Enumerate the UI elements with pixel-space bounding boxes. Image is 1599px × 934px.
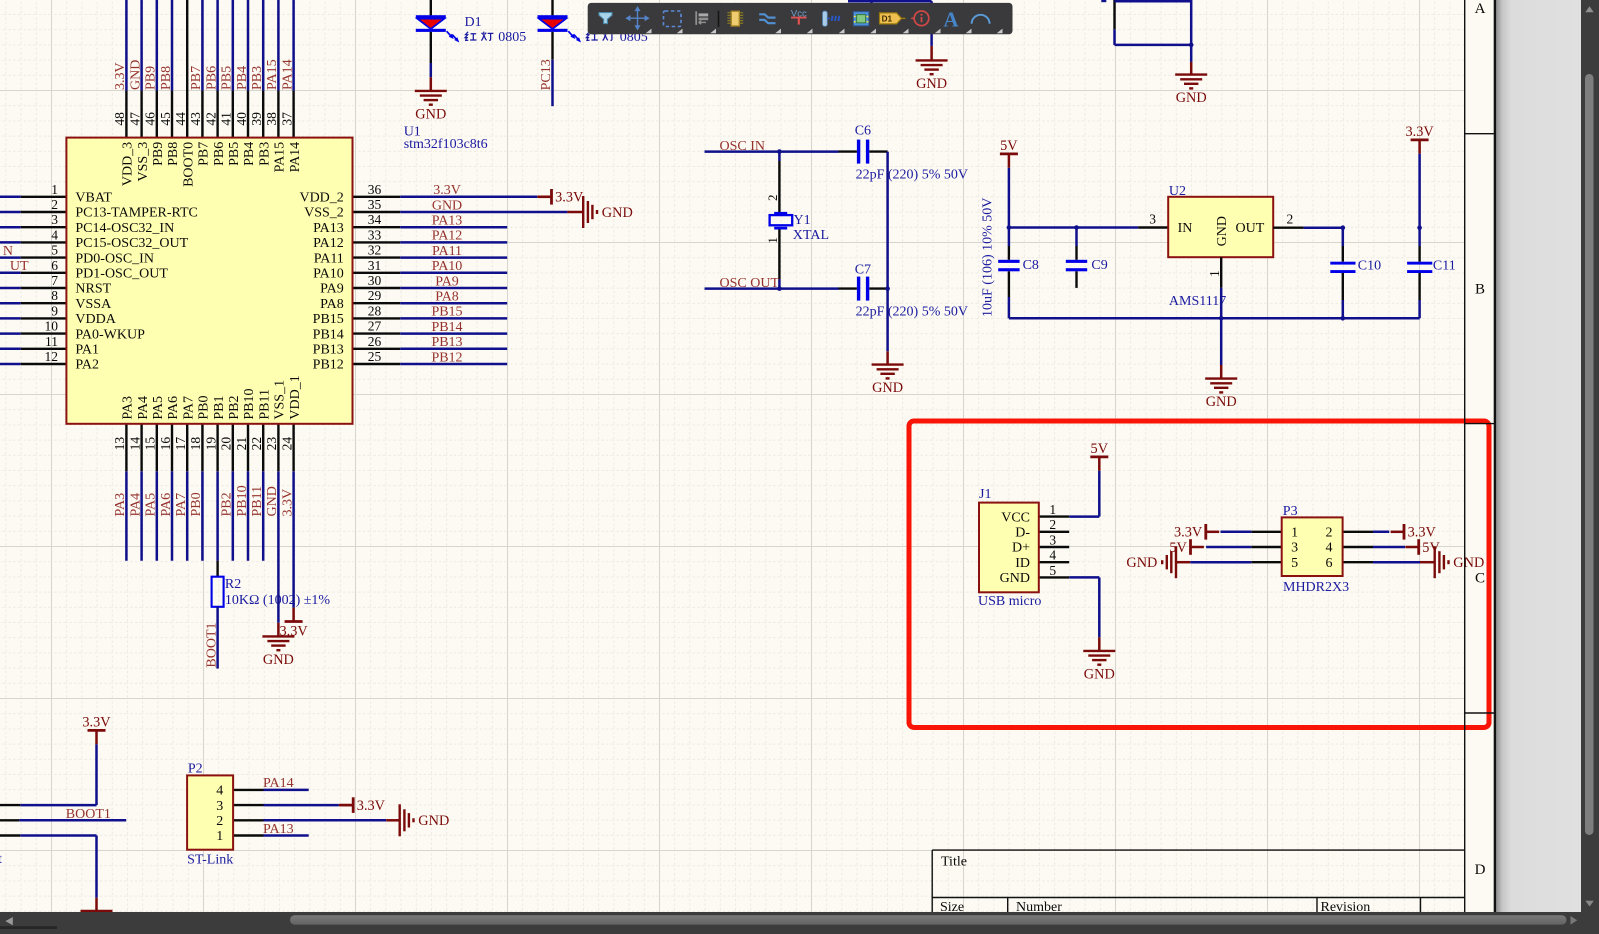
svg-text:PB7: PB7 <box>189 66 204 90</box>
svg-text:C11: C11 <box>1433 259 1456 274</box>
svg-text:VSS_2: VSS_2 <box>304 206 344 221</box>
svg-text:VDD_3: VDD_3 <box>121 142 136 186</box>
svg-text:UT: UT <box>10 259 29 274</box>
svg-text:PC14-OSC32_IN: PC14-OSC32_IN <box>75 221 174 236</box>
svg-text:2: 2 <box>1326 526 1333 541</box>
svg-text:VDD_2: VDD_2 <box>299 191 343 206</box>
svg-text:22: 22 <box>249 437 264 451</box>
svg-text:6: 6 <box>1326 556 1333 571</box>
svg-text:PA4: PA4 <box>128 493 143 517</box>
svg-text:12: 12 <box>45 349 59 364</box>
svg-text:17: 17 <box>173 437 188 451</box>
svg-text:33: 33 <box>368 227 382 242</box>
svg-text:PB5: PB5 <box>227 142 242 166</box>
svg-text:VSS_3: VSS_3 <box>136 142 151 182</box>
svg-text:PB2: PB2 <box>227 395 242 419</box>
svg-text:U2: U2 <box>1169 184 1186 199</box>
svg-text:PA3: PA3 <box>121 396 136 420</box>
svg-text:PB8: PB8 <box>159 66 174 90</box>
svg-text:R2: R2 <box>225 577 241 592</box>
svg-text:PC13: PC13 <box>539 59 554 90</box>
svg-text:PD1-OSC_OUT: PD1-OSC_OUT <box>75 267 168 282</box>
svg-text:10: 10 <box>45 319 59 334</box>
svg-text:GND: GND <box>1206 394 1237 410</box>
svg-text:PB0: PB0 <box>189 492 204 516</box>
svg-text:N: N <box>3 244 13 259</box>
svg-text:23: 23 <box>264 437 279 451</box>
svg-text:5V: 5V <box>1000 138 1018 154</box>
svg-text:ST-Link: ST-Link <box>187 852 233 867</box>
svg-text:3.3V: 3.3V <box>113 62 128 90</box>
svg-text:PB3: PB3 <box>257 142 272 166</box>
svg-text:37: 37 <box>279 112 294 126</box>
svg-text:VCC: VCC <box>1001 510 1030 525</box>
svg-text:5: 5 <box>51 243 58 258</box>
svg-text:0805: 0805 <box>498 30 526 45</box>
svg-text:PA1: PA1 <box>75 343 99 358</box>
svg-text:20: 20 <box>219 437 234 451</box>
svg-text:PA7: PA7 <box>174 493 189 517</box>
svg-text:D1: D1 <box>882 14 893 23</box>
svg-text:4: 4 <box>216 784 223 799</box>
svg-text:1: 1 <box>1291 526 1298 541</box>
svg-text:6: 6 <box>51 258 58 273</box>
svg-text:1: 1 <box>216 829 223 844</box>
svg-text:GND: GND <box>1176 90 1207 106</box>
svg-text:PA9: PA9 <box>320 282 344 297</box>
svg-text:PB13: PB13 <box>313 343 344 358</box>
svg-text:PB12: PB12 <box>313 358 344 373</box>
svg-text:PA0-WKUP: PA0-WKUP <box>75 327 145 342</box>
svg-text:PA14: PA14 <box>288 142 303 173</box>
svg-text:PA3: PA3 <box>113 493 128 517</box>
svg-text:3: 3 <box>216 799 223 814</box>
svg-text:OUT: OUT <box>1236 221 1265 236</box>
svg-text:VSS_1: VSS_1 <box>273 380 288 420</box>
svg-text:36: 36 <box>368 182 382 197</box>
svg-text:PA5: PA5 <box>151 396 166 420</box>
svg-text:13: 13 <box>112 437 127 451</box>
svg-text:35: 35 <box>368 197 382 212</box>
svg-text:16: 16 <box>158 437 173 451</box>
svg-text:C6: C6 <box>855 124 871 139</box>
svg-text:2: 2 <box>1049 517 1056 532</box>
svg-text:GND: GND <box>128 60 143 90</box>
svg-text:PA13: PA13 <box>313 221 344 236</box>
svg-text:PA6: PA6 <box>159 493 174 517</box>
svg-text:PB6: PB6 <box>212 142 227 166</box>
svg-text:D: D <box>1475 862 1486 878</box>
svg-text:38: 38 <box>264 112 279 126</box>
svg-text:PB9: PB9 <box>144 66 159 90</box>
svg-text:5: 5 <box>1049 563 1056 578</box>
svg-text:PB11: PB11 <box>250 486 265 517</box>
svg-text:3: 3 <box>1291 541 1298 556</box>
svg-text:30: 30 <box>368 273 382 288</box>
svg-text:GND: GND <box>415 107 446 123</box>
svg-text:45: 45 <box>158 112 173 126</box>
svg-text:1: 1 <box>51 182 58 197</box>
svg-text:3.3V: 3.3V <box>357 798 386 814</box>
svg-text:3: 3 <box>51 212 58 227</box>
svg-text:41: 41 <box>219 112 234 126</box>
svg-text:P3: P3 <box>1283 504 1298 519</box>
svg-text:10uF (106) 10% 50V: 10uF (106) 10% 50V <box>981 198 996 317</box>
svg-text:IN: IN <box>1178 221 1193 236</box>
svg-text:PB6: PB6 <box>204 66 219 90</box>
svg-text:VSSA: VSSA <box>75 297 112 312</box>
svg-text:PB11: PB11 <box>257 389 272 420</box>
svg-text:XTAL: XTAL <box>793 228 829 243</box>
svg-text:PB8: PB8 <box>166 142 181 166</box>
svg-text:BOOT0: BOOT0 <box>181 142 196 187</box>
svg-text:P2: P2 <box>188 761 203 776</box>
svg-text:9: 9 <box>51 303 58 318</box>
svg-text:Title: Title <box>941 854 967 869</box>
svg-text:t: t <box>0 852 2 867</box>
svg-text:7: 7 <box>51 273 58 288</box>
svg-text:3.3V: 3.3V <box>1408 525 1437 541</box>
svg-text:PA7: PA7 <box>181 396 196 420</box>
svg-text:GND: GND <box>1000 571 1030 586</box>
svg-text:40: 40 <box>234 112 249 126</box>
svg-text:NRST: NRST <box>75 282 111 297</box>
svg-text:PA2: PA2 <box>75 358 99 373</box>
svg-text:GND: GND <box>1453 555 1484 571</box>
svg-text:21: 21 <box>234 437 249 451</box>
svg-text:GND: GND <box>1084 667 1115 683</box>
svg-text:3.3V: 3.3V <box>555 190 584 206</box>
svg-text:B: B <box>1475 282 1485 298</box>
svg-text:PB15: PB15 <box>313 312 344 327</box>
svg-text:31: 31 <box>368 258 382 273</box>
svg-text:PB1: PB1 <box>212 395 227 419</box>
svg-text:GND: GND <box>263 652 294 668</box>
svg-text:4: 4 <box>1049 548 1056 563</box>
svg-text:VBAT: VBAT <box>75 191 112 206</box>
svg-text:43: 43 <box>188 112 203 126</box>
svg-text:PA14: PA14 <box>280 59 295 90</box>
svg-text:PB14: PB14 <box>313 327 344 342</box>
svg-text:PA8: PA8 <box>320 297 344 312</box>
svg-text:PB5: PB5 <box>220 66 235 90</box>
svg-text:3.3V: 3.3V <box>1174 525 1203 541</box>
svg-text:14: 14 <box>127 437 142 451</box>
svg-text:BOOT1: BOOT1 <box>204 622 219 667</box>
svg-text:18: 18 <box>188 437 203 451</box>
svg-text:GND: GND <box>1215 216 1230 246</box>
svg-text:D1: D1 <box>465 15 482 30</box>
svg-text:GND: GND <box>1126 555 1157 571</box>
svg-text:2: 2 <box>765 195 780 202</box>
svg-text:3.3V: 3.3V <box>82 714 111 730</box>
svg-text:44: 44 <box>173 112 188 126</box>
svg-text:GND: GND <box>916 76 947 92</box>
svg-text:32: 32 <box>368 243 382 258</box>
svg-text:3.3V: 3.3V <box>279 624 308 640</box>
svg-text:11: 11 <box>45 334 58 349</box>
svg-text:stm32f103c8t6: stm32f103c8t6 <box>404 137 488 152</box>
svg-text:D-: D- <box>1015 526 1030 541</box>
svg-text:39: 39 <box>249 112 264 126</box>
svg-text:PB7: PB7 <box>197 142 212 166</box>
svg-text:MHDR2X3: MHDR2X3 <box>1283 580 1349 595</box>
svg-text:PB9: PB9 <box>151 142 166 166</box>
svg-text:PB10: PB10 <box>242 388 257 419</box>
svg-text:34: 34 <box>368 212 382 227</box>
svg-text:C: C <box>1475 571 1485 587</box>
svg-text:3: 3 <box>1149 211 1156 226</box>
svg-text:PD0-OSC_IN: PD0-OSC_IN <box>75 251 154 266</box>
svg-text:24: 24 <box>279 437 294 451</box>
svg-text:46: 46 <box>143 112 158 126</box>
svg-text:PA11: PA11 <box>314 251 344 266</box>
svg-text:GND: GND <box>418 813 449 829</box>
svg-text:C10: C10 <box>1358 259 1381 274</box>
svg-text:VDDA: VDDA <box>75 312 116 327</box>
svg-text:USB micro: USB micro <box>978 594 1041 609</box>
svg-text:VDD_1: VDD_1 <box>288 375 303 419</box>
svg-text:19: 19 <box>203 437 218 451</box>
svg-text:ID: ID <box>1015 556 1030 571</box>
svg-text:3.3V: 3.3V <box>1405 124 1434 140</box>
svg-text:PA14: PA14 <box>263 776 294 791</box>
svg-text:5: 5 <box>1291 556 1298 571</box>
svg-text:28: 28 <box>368 303 382 318</box>
svg-text:PA6: PA6 <box>166 396 181 420</box>
svg-text:GND: GND <box>602 205 633 221</box>
svg-text:J1: J1 <box>979 487 991 502</box>
svg-text:PC13-TAMPER-RTC: PC13-TAMPER-RTC <box>75 206 197 221</box>
svg-text:47: 47 <box>127 112 142 126</box>
svg-text:A: A <box>943 7 959 31</box>
svg-text:26: 26 <box>368 334 382 349</box>
svg-text:PA15: PA15 <box>273 142 288 173</box>
svg-text:PA13: PA13 <box>263 822 294 837</box>
svg-text:A: A <box>1475 1 1486 17</box>
svg-text:PA12: PA12 <box>313 236 344 251</box>
svg-text:PC15-OSC32_OUT: PC15-OSC32_OUT <box>75 236 188 251</box>
svg-text:22pF (220) 5% 50V: 22pF (220) 5% 50V <box>856 168 968 183</box>
svg-text:C7: C7 <box>855 263 871 278</box>
svg-text:1: 1 <box>765 237 780 244</box>
svg-text:5V: 5V <box>1091 441 1109 457</box>
svg-text:C9: C9 <box>1091 258 1107 273</box>
svg-text:2: 2 <box>51 197 58 212</box>
svg-text:PA10: PA10 <box>313 267 344 282</box>
svg-text:PB4: PB4 <box>242 142 257 166</box>
svg-text:GND: GND <box>872 380 903 396</box>
svg-text:2: 2 <box>1287 211 1294 226</box>
svg-text:PA4: PA4 <box>136 396 151 420</box>
svg-text:42: 42 <box>203 112 218 126</box>
svg-text:22pF (220) 5% 50V: 22pF (220) 5% 50V <box>856 305 968 320</box>
svg-text:D+: D+ <box>1012 541 1030 556</box>
svg-text:PB3: PB3 <box>250 66 265 90</box>
svg-text:3: 3 <box>1049 532 1056 547</box>
svg-text:C8: C8 <box>1023 258 1039 273</box>
svg-text:27: 27 <box>368 319 382 334</box>
svg-text:1: 1 <box>1049 502 1056 517</box>
svg-text:1: 1 <box>1207 270 1222 277</box>
svg-text:2: 2 <box>216 814 223 829</box>
svg-text:48: 48 <box>112 112 127 126</box>
svg-text:5V: 5V <box>1422 540 1440 556</box>
svg-text:PB4: PB4 <box>235 66 250 90</box>
svg-text:8: 8 <box>51 288 58 303</box>
svg-text:Y1: Y1 <box>794 213 811 228</box>
svg-text:4: 4 <box>51 227 58 242</box>
svg-text:PB2: PB2 <box>220 492 235 516</box>
svg-text:4: 4 <box>1326 541 1333 556</box>
svg-text:PA5: PA5 <box>144 493 159 517</box>
svg-text:PB0: PB0 <box>197 395 212 419</box>
svg-text:29: 29 <box>368 288 382 303</box>
svg-text:PB10: PB10 <box>235 485 250 516</box>
svg-text:25: 25 <box>368 349 382 364</box>
svg-text:PA15: PA15 <box>265 59 280 90</box>
svg-text:AMS1117: AMS1117 <box>1169 294 1226 309</box>
svg-text:15: 15 <box>143 437 158 451</box>
